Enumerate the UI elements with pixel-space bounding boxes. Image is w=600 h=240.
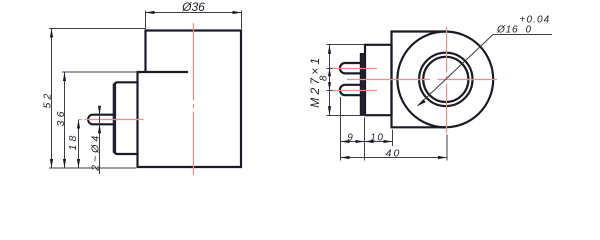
dimension M27x1 extension lines [327, 44, 366, 46]
centerline pin left view [79, 119, 144, 121]
dimension 52 line [51, 29, 53, 169]
dimension 18 line [78, 120, 80, 169]
svg-text:9: 9 [347, 132, 353, 143]
pin 2 centerline [333, 90, 378, 92]
svg-text:10: 10 [370, 133, 384, 144]
svg-text:Ø16: Ø16 [496, 25, 518, 36]
connector base block right view [365, 45, 392, 115]
thread circle right view [419, 53, 472, 106]
dimension D36 line [146, 12, 242, 14]
svg-text:8: 8 [318, 75, 329, 81]
connector face plate right view [360, 54, 365, 115]
dimension 40 extension line [446, 135, 448, 161]
terminal pin left view [88, 115, 114, 125]
bottom extension line left view [49, 167, 136, 169]
dimension M27x1 line [329, 45, 331, 116]
svg-text:36: 36 [55, 108, 67, 126]
bore circle D16 right view [423, 57, 468, 102]
dimension 9 10 extension lines [340, 97, 342, 161]
pin 2 right view [340, 85, 361, 95]
leader D16 [418, 35, 494, 107]
svg-text:2~Ø4: 2~Ø4 [89, 133, 101, 172]
centerline vertical right view [446, 27, 448, 134]
svg-text:52: 52 [42, 90, 54, 108]
svg-text:40: 40 [386, 147, 402, 159]
pin 1 right view [340, 63, 361, 73]
svg-text:+0.04: +0.04 [520, 15, 551, 26]
svg-text:0: 0 [526, 25, 532, 36]
pin 1 centerline [333, 68, 378, 70]
centerline vertical left view [193, 23, 195, 175]
connector block left view [115, 82, 138, 154]
centerline horizontal right view [347, 79, 497, 81]
dimension 40 line [341, 157, 448, 159]
dimension D36 extension lines [145, 11, 147, 30]
dimension 52 extension line top [49, 28, 146, 30]
dimension 9 10 line [341, 141, 393, 143]
dimension 36 extension line [62, 71, 138, 73]
coil body outline right view [392, 32, 446, 128]
dimension 36 line [64, 72, 66, 168]
connector block face edge left view [113, 84, 116, 153]
svg-text:18: 18 [67, 132, 79, 150]
dimension 8 extension segments [327, 68, 333, 70]
svg-text:Ø36: Ø36 [181, 0, 205, 14]
coil body outline left view [138, 31, 242, 168]
dimension 2-D4 line [99, 107, 101, 174]
